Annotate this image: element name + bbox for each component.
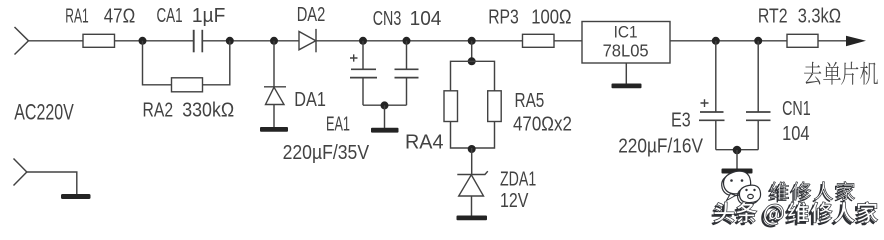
diode DA2 (series) bbox=[299, 32, 316, 50]
wire: CN3 to bottom joint bbox=[406, 78, 408, 106]
svg-text:CN1: CN1 bbox=[782, 98, 811, 120]
svg-text:ZDA1: ZDA1 bbox=[500, 169, 536, 191]
capacitor CN3 104 plates bbox=[395, 68, 419, 70]
output arrow head bbox=[846, 36, 866, 47]
svg-text:1µF: 1µF bbox=[192, 5, 226, 27]
capacitor CA1 1uF bbox=[193, 30, 195, 53]
junction (EA1/CN3 ground) bbox=[381, 101, 389, 109]
node F (RA4/RA5 tap) bbox=[468, 37, 476, 45]
zener ZDA1 triangle bbox=[459, 175, 484, 196]
junction (E3/CN1 ground) bbox=[733, 146, 742, 155]
wire: node F down bbox=[471, 41, 473, 62]
resistor RA1 47ohm bbox=[83, 34, 115, 47]
wire: node C down to DA1 bbox=[273, 41, 275, 87]
svg-text:78L05: 78L05 bbox=[603, 41, 649, 61]
text: to microcontroller (qu dan pian ji) bbox=[804, 62, 821, 85]
wire: main rail CA1 to RP3 bbox=[202, 40, 522, 42]
svg-text:100Ω: 100Ω bbox=[531, 7, 571, 29]
svg-text:DA1: DA1 bbox=[294, 89, 326, 111]
svg-text:CA1: CA1 bbox=[156, 5, 182, 27]
wire: IC1 output rail bbox=[670, 40, 787, 42]
resistor RP3 100ohm bbox=[523, 34, 555, 47]
wire: RA4/RA5 top split bbox=[451, 61, 495, 91]
wire: IC1 ground pin bbox=[625, 63, 627, 84]
svg-text:12V: 12V bbox=[500, 190, 529, 212]
resistor RT2 3.3kohm bbox=[787, 34, 818, 47]
svg-text:AC220V: AC220V bbox=[14, 100, 74, 125]
junction (RA4/RA5 bottom) bbox=[468, 145, 476, 153]
svg-text:220µF/35V: 220µF/35V bbox=[283, 142, 370, 164]
node H (CN1 tap) bbox=[754, 37, 762, 45]
svg-text:CN3: CN3 bbox=[373, 8, 402, 30]
ground (ZDA1) bbox=[457, 216, 488, 221]
svg-text:E3: E3 bbox=[671, 110, 691, 132]
wire: node G to E3 bbox=[715, 41, 717, 112]
node C (DA1 tap) bbox=[270, 37, 278, 45]
wire: node H to CN1 bbox=[757, 41, 759, 112]
ground (AC neutral) bbox=[61, 194, 91, 199]
ground (E3/CN1) bbox=[722, 169, 753, 174]
resistor RA5 470ohm x2 bbox=[488, 91, 502, 122]
capacitor EA1 plates bbox=[351, 68, 376, 70]
node E (CN3 tap) bbox=[403, 37, 411, 45]
svg-text:RT2: RT2 bbox=[758, 6, 788, 28]
wire: node E to CN3 bbox=[406, 41, 408, 70]
svg-text:47Ω: 47Ω bbox=[104, 6, 135, 28]
input terminal chevron (AC line 2) bbox=[14, 159, 27, 186]
svg-text:220µF/16V: 220µF/16V bbox=[618, 136, 703, 158]
diode DA1 triangle bbox=[266, 87, 285, 104]
watermark text row 2: toutiao @ weixiurenjia bbox=[711, 202, 734, 225]
wire: to ZDA1 bbox=[471, 148, 473, 175]
zener ZDA1 12V (cathode bar) bbox=[457, 171, 488, 174]
wire: input 2 to ground bbox=[27, 172, 77, 194]
svg-text:RA2: RA2 bbox=[143, 100, 174, 122]
svg-text:3.3kΩ: 3.3kΩ bbox=[798, 6, 841, 28]
watermark logo icon (two chat bubbles) bbox=[722, 171, 761, 204]
wire: E3 to bottom joint bbox=[715, 120, 717, 149]
wire: joint to ground bbox=[736, 150, 738, 169]
resistor RA4 bbox=[444, 91, 458, 122]
junction (RA4/RA5 top) bbox=[468, 57, 476, 65]
wire: node D to EA1 bbox=[362, 41, 364, 70]
svg-text:DA2: DA2 bbox=[297, 4, 326, 26]
resistor RA2 330kohm bbox=[172, 78, 203, 92]
svg-text:RA4: RA4 bbox=[405, 132, 444, 154]
svg-text:470Ωx2: 470Ωx2 bbox=[513, 114, 572, 136]
svg-text:EA1: EA1 bbox=[326, 114, 350, 136]
wire: RA4/RA5 bottom join bbox=[451, 122, 495, 149]
wire: EA1/CN3 bottom joint bbox=[363, 104, 407, 106]
svg-text:104: 104 bbox=[782, 123, 809, 145]
node G (E3 tap) bbox=[712, 37, 720, 45]
svg-text:IC1: IC1 bbox=[614, 24, 638, 42]
capacitor EA1 220uF/35V plus sign bbox=[350, 54, 358, 61]
wire: RA2 branch right bbox=[203, 41, 230, 85]
wire: joint to ground bbox=[384, 105, 386, 128]
wire: RA1 to node A bbox=[115, 40, 194, 42]
capacitor E3 220uF/16V plus sign bbox=[701, 99, 709, 107]
wire: RP3 to IC1 bbox=[554, 40, 582, 42]
ground (IC1) bbox=[612, 84, 642, 89]
capacitor CN1 104 plates bbox=[746, 111, 771, 113]
node B (CA1/RA2 right) bbox=[226, 37, 234, 45]
input terminal chevron (AC line 1) bbox=[15, 27, 29, 55]
svg-text:330kΩ: 330kΩ bbox=[182, 100, 234, 122]
wire: E3/CN1 bottom joint bbox=[716, 149, 758, 151]
node D (EA1 tap) bbox=[359, 37, 367, 45]
node A (RA1/CA1/RA2) bbox=[139, 37, 147, 45]
svg-text:RA5: RA5 bbox=[515, 90, 545, 112]
wire: DA1 to ground bbox=[273, 105, 275, 128]
wire: input to RA1 bbox=[29, 40, 84, 42]
svg-text:104: 104 bbox=[410, 8, 442, 30]
watermark text row 1: weixiurenjia bbox=[768, 182, 789, 203]
wire: RT2 to output arrow bbox=[818, 40, 847, 42]
ground (DA1) bbox=[260, 127, 288, 132]
wire: RA2 branch left bbox=[143, 41, 172, 85]
op-amp/regulator IC1 78L05 box bbox=[582, 22, 670, 64]
svg-text:RA1: RA1 bbox=[65, 6, 88, 28]
diode DA1 (cathode bar) bbox=[264, 86, 286, 88]
wire: ZDA1 to ground bbox=[471, 196, 473, 216]
svg-text:RP3: RP3 bbox=[488, 7, 519, 29]
capacitor E3 plates bbox=[700, 111, 724, 113]
wire: CN1 to bottom joint bbox=[757, 120, 759, 149]
wire: EA1 to bottom joint bbox=[362, 78, 364, 106]
ground (EA1/CN3) bbox=[371, 128, 399, 133]
